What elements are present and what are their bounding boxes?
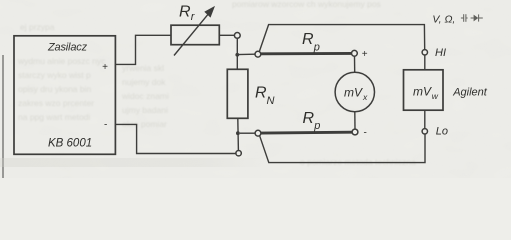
svg-text:wydmu alnie poszc nyc: wydmu alnie poszc nyc [17, 56, 106, 66]
svg-text:nujemy dok: nujemy dok [122, 77, 166, 87]
wire HI circle to meter box [424, 55, 426, 70]
svg-text:p: p [313, 42, 320, 54]
wire node A down to RN [236, 38, 238, 69]
svg-text:zakres wzo prcenter: zakres wzo prcenter [18, 98, 94, 108]
wire + from supply [116, 35, 172, 64]
svg-text:R: R [179, 3, 191, 20]
svg-text:N: N [267, 95, 275, 107]
diode function symbol [471, 14, 483, 21]
resistor Rr arrowhead [204, 6, 215, 18]
svg-text:R: R [302, 31, 314, 48]
paper background [0, 0, 511, 178]
svg-text:R: R [303, 110, 315, 127]
svg-text:KB 6001: KB 6001 [48, 138, 92, 150]
power supply box KB 6001 [14, 36, 115, 155]
capacitor function symbol [461, 14, 468, 22]
junction dot lower [236, 131, 240, 135]
wire slant node B to top rail [259, 25, 424, 52]
svg-text:ujmy badani: ujmy badani [122, 105, 168, 115]
node + terminal circle (Rp top right) [352, 50, 358, 56]
svg-text:w: w [432, 91, 439, 101]
wire node + down to meter mVx [354, 56, 356, 72]
wire RN bottom down to supply rail node [237, 118, 240, 150]
resistor Rr body [171, 25, 219, 45]
ghost bleed-through text (decorative) [17, 0, 416, 167]
wire Lo circle to meter box bottom [424, 110, 426, 128]
wire meter mVx to node - [354, 112, 356, 129]
svg-text:Agilent: Agilent [452, 86, 488, 98]
svg-text:+: + [362, 49, 368, 60]
svg-text:na ppg wart metodi: na ppg wart metodi [18, 112, 90, 122]
HI terminal circle [422, 50, 427, 55]
wire - from supply [116, 124, 236, 153]
svg-text:opisy dru ykona bin: opisy dru ykona bin [18, 84, 92, 94]
svg-text:x: x [362, 92, 368, 102]
Lo terminal circle [422, 129, 427, 134]
svg-text:-: - [104, 119, 107, 130]
svg-text:mV: mV [344, 85, 363, 99]
svg-text:Zasilacz: Zasilacz [47, 42, 88, 54]
supply rail terminal circle [236, 151, 241, 156]
resistor Rp bottom (thick lead) [261, 131, 352, 135]
resistor RN body [227, 69, 248, 118]
svg-text:V, Ω,: V, Ω, [432, 14, 455, 26]
svg-text:starczy wyko wist p: starczy wyko wist p [18, 70, 91, 80]
wire junction to node E [240, 132, 255, 134]
wire junction to node B [237, 53, 255, 55]
svg-text:R: R [255, 85, 267, 102]
resistor Rp top (thick lead) [261, 52, 352, 55]
svg-text:p: p [313, 120, 320, 132]
node E terminal circle (Rp bottom left) [255, 130, 261, 136]
wire slant node E to bottom rail, to Lo [260, 134, 425, 163]
wire Rr to node [219, 34, 234, 36]
scan edge artifact left [2, 55, 4, 178]
svg-text:+: + [102, 62, 108, 73]
svg-text:pomiarow wzorcow ch wykonujemy: pomiarow wzorcow ch wykonujemy pos [232, 0, 381, 9]
node A terminal circle (Rr output) [234, 33, 240, 39]
svg-text:Lo: Lo [436, 126, 448, 138]
svg-text:mV: mV [413, 84, 432, 98]
svg-text:HI: HI [435, 47, 446, 59]
node B terminal circle (Rp top left) [255, 51, 261, 57]
digital meter box Agilent [404, 70, 444, 110]
svg-text:ej przypa: ej przypa [20, 22, 55, 32]
node - terminal circle (Rp bottom right) [352, 129, 358, 135]
svg-text:-: - [364, 128, 367, 139]
resistor Rr arrow shaft [174, 12, 210, 56]
svg-text:widoc znami: widoc znami [121, 91, 169, 101]
meter mVx circle [335, 72, 374, 111]
junction dot upper [235, 53, 239, 57]
